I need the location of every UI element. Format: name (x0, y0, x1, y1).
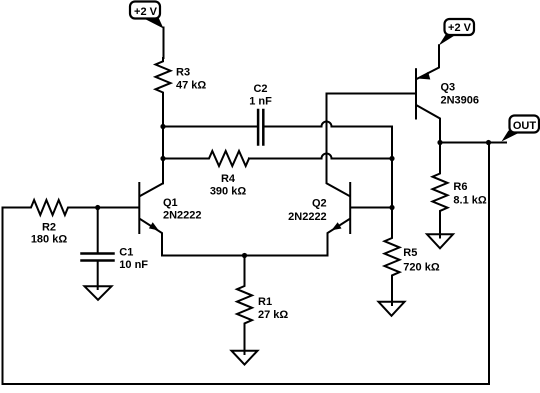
svg-text:8.1 kΩ: 8.1 kΩ (453, 195, 486, 207)
svg-text:10 nF: 10 nF (119, 259, 148, 271)
svg-text:R3: R3 (176, 67, 190, 79)
svg-text:R5: R5 (403, 247, 417, 259)
svg-text:180 kΩ: 180 kΩ (31, 234, 68, 246)
svg-text:R6: R6 (453, 181, 467, 193)
svg-text:1 nF: 1 nF (249, 96, 272, 108)
svg-text:+2 V: +2 V (448, 22, 472, 34)
svg-text:R2: R2 (42, 222, 56, 234)
svg-text:R1: R1 (258, 296, 272, 308)
svg-text:720 kΩ: 720 kΩ (403, 262, 440, 274)
svg-text:C1: C1 (119, 247, 133, 259)
svg-text:Q1: Q1 (163, 197, 178, 209)
svg-text:390 kΩ: 390 kΩ (210, 186, 247, 198)
svg-text:R4: R4 (221, 173, 236, 185)
svg-text:2N3906: 2N3906 (441, 95, 480, 107)
svg-text:2N2222: 2N2222 (163, 210, 202, 222)
svg-text:2N2222: 2N2222 (288, 211, 327, 223)
svg-text:OUT: OUT (513, 120, 537, 132)
svg-text:+2 V: +2 V (134, 6, 158, 18)
svg-text:Q3: Q3 (441, 82, 456, 94)
svg-text:C2: C2 (253, 83, 267, 95)
svg-text:47 kΩ: 47 kΩ (176, 80, 206, 92)
svg-text:Q2: Q2 (312, 198, 327, 210)
svg-text:27 kΩ: 27 kΩ (258, 309, 288, 321)
